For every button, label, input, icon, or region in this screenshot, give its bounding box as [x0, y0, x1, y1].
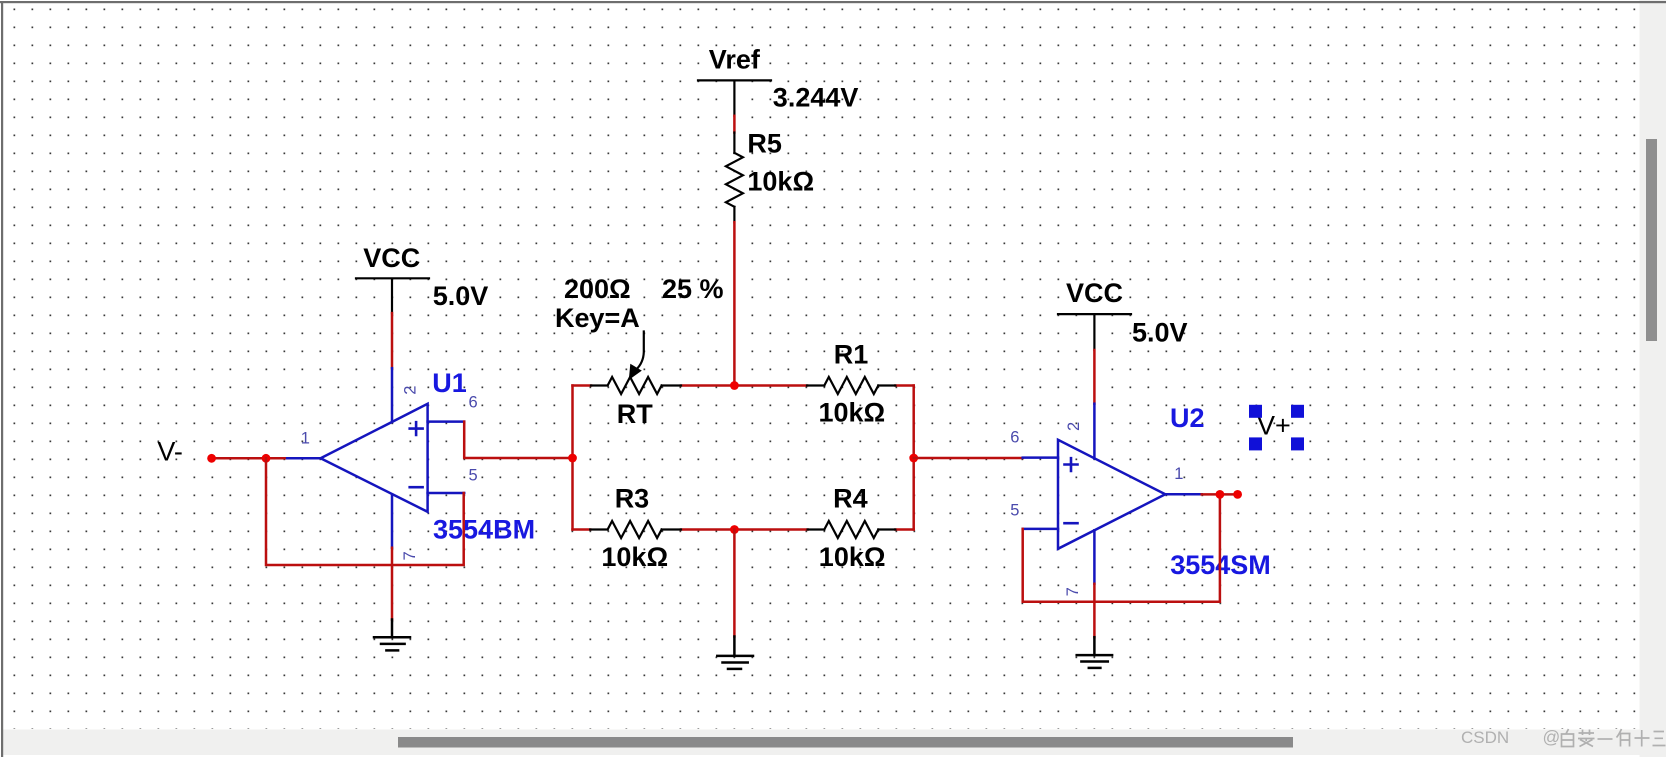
svg-text:U1: U1 — [432, 368, 467, 398]
svg-text:6: 6 — [469, 394, 478, 412]
junction dot right rail — [909, 454, 918, 463]
wire VCC to U2 pin2 — [1093, 350, 1096, 404]
svg-text:Key=A: Key=A — [555, 303, 640, 333]
wire U1 pin7 down — [391, 548, 394, 620]
selection handle V+ top-right — [1291, 405, 1304, 418]
bottom scrollbar thumb — [398, 737, 1293, 748]
wire bottom rail segments — [573, 528, 914, 531]
svg-text:5: 5 — [469, 467, 478, 485]
potentiometer RT arrowhead — [629, 364, 642, 380]
svg-text:R1: R1 — [834, 339, 869, 369]
hanzi cai — [1578, 730, 1595, 747]
wire V- to U1 output — [212, 457, 285, 460]
ground (U2) — [1077, 637, 1112, 668]
svg-text:10kΩ: 10kΩ — [819, 398, 886, 428]
svg-text:5.0V: 5.0V — [433, 281, 489, 311]
svg-text:6: 6 — [1010, 429, 1019, 447]
wire bottom mid to ground — [733, 530, 736, 637]
svg-text:200Ω: 200Ω — [564, 274, 631, 304]
bottom scrollbar track — [2, 730, 1640, 756]
svg-text:10kΩ: 10kΩ — [819, 542, 886, 572]
power symbol Vref — [698, 80, 771, 115]
junction dot top mid — [730, 381, 739, 390]
wire U1 +in to bridge — [464, 422, 572, 458]
wire VCC to U1 pin2 — [391, 313, 394, 368]
wire U2 output — [1202, 493, 1238, 496]
hanzi shi — [1635, 730, 1650, 747]
junction dot at V- end — [207, 454, 216, 463]
resistor R4 — [808, 521, 896, 538]
wire top rail segments — [573, 384, 914, 387]
ground (bridge) — [717, 637, 753, 669]
wire bridge to U2 +in — [914, 457, 1023, 460]
junction dot U2 output feedback — [1216, 490, 1225, 499]
power symbol VCC (U1) — [356, 278, 429, 313]
power symbol VCC (U2) — [1058, 314, 1131, 350]
hanzi san — [1653, 732, 1666, 746]
hanzi jin — [1617, 729, 1631, 747]
wire R5 to top rail — [733, 222, 736, 385]
op-amp U2 (points right) — [1023, 404, 1202, 584]
op-amp U1 (points left) — [285, 368, 465, 548]
svg-text:V+: V+ — [1257, 411, 1291, 441]
svg-text:R3: R3 — [615, 484, 650, 514]
svg-text:1: 1 — [301, 430, 310, 448]
junction dot feedback tap — [262, 454, 271, 463]
right scrollbar track — [1640, 0, 1666, 757]
wire U2 pin7 down — [1093, 584, 1096, 637]
junction dot V+ end — [1233, 490, 1242, 499]
svg-text:CSDN: CSDN — [1461, 728, 1509, 747]
svg-text:5: 5 — [1010, 502, 1019, 520]
bridge right rail wire — [912, 386, 915, 530]
svg-text:R5: R5 — [747, 128, 782, 158]
svg-text:5.0V: 5.0V — [1132, 317, 1188, 347]
selection handle V+ bottom-right — [1291, 437, 1304, 450]
wire U2 feedback loop — [1023, 494, 1220, 601]
svg-text:Vref: Vref — [709, 44, 761, 74]
svg-text:R4: R4 — [833, 484, 868, 514]
potentiometer RT — [591, 332, 681, 395]
svg-text:3.244V: 3.244V — [773, 83, 859, 113]
wire Vref to R5 — [733, 116, 736, 133]
svg-text:3554BM: 3554BM — [433, 515, 535, 545]
hanzi bai — [1562, 729, 1574, 747]
svg-text:7: 7 — [401, 551, 419, 560]
frame left — [1, 1, 3, 757]
svg-text:2: 2 — [1065, 422, 1083, 431]
resistor R5 — [726, 133, 743, 223]
resistor R1 — [807, 377, 895, 394]
svg-text:VCC: VCC — [363, 243, 420, 273]
right scrollbar thumb — [1646, 139, 1657, 341]
junction dot bottom mid — [730, 525, 739, 534]
hanzi yi — [1598, 738, 1613, 740]
bridge left rail wire — [571, 386, 574, 530]
wire U1 feedback loop — [266, 458, 464, 565]
svg-text:1: 1 — [1174, 465, 1183, 483]
svg-text:VCC: VCC — [1066, 278, 1123, 308]
ground (U1) — [374, 620, 410, 651]
svg-text:RT: RT — [617, 399, 653, 429]
junction dot left rail — [568, 454, 577, 463]
svg-text:@: @ — [1543, 727, 1561, 747]
watermark — [1461, 727, 1666, 747]
svg-text:2: 2 — [402, 386, 420, 395]
frame top — [0, 1, 1666, 3]
svg-text:U2: U2 — [1170, 403, 1205, 433]
svg-text:10kΩ: 10kΩ — [747, 167, 814, 197]
selection handle V+ top-left — [1249, 405, 1262, 418]
selection handle V+ bottom-left — [1249, 437, 1262, 450]
resistor R3 — [590, 521, 681, 538]
svg-text:25 %: 25 % — [662, 274, 724, 304]
svg-text:10kΩ: 10kΩ — [601, 542, 668, 572]
svg-text:7: 7 — [1064, 587, 1082, 596]
svg-text:V-: V- — [157, 437, 183, 467]
